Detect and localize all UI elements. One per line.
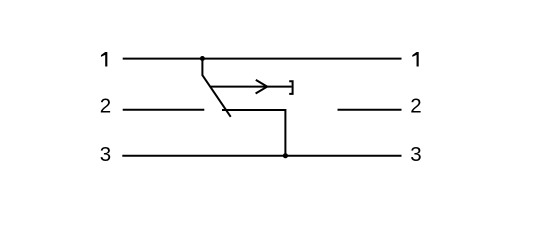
wire: line 2 left segment [123,109,205,111]
svg-text:3: 3 [410,143,421,166]
actuator end bracket [289,81,292,94]
actuator arrowhead [256,80,268,94]
wire: line 2 right stub [338,109,402,111]
svg-text:3: 3 [100,143,111,166]
wire: line 1 rail [123,58,402,60]
terminal label 1 (right) [412,52,418,66]
svg-text:2: 2 [410,95,421,118]
wire: line 2 middle segment with vertical drop to line 3 [222,110,285,156]
actuator arrow shaft [210,86,291,88]
wire: line 3 rail [122,155,401,157]
switch blade (movable contact) [202,59,230,117]
node: junction dot on line 1 [200,56,205,61]
node: junction dot on line 3 [283,153,288,158]
terminal label 1 (left) [101,52,107,66]
svg-text:2: 2 [100,95,111,118]
